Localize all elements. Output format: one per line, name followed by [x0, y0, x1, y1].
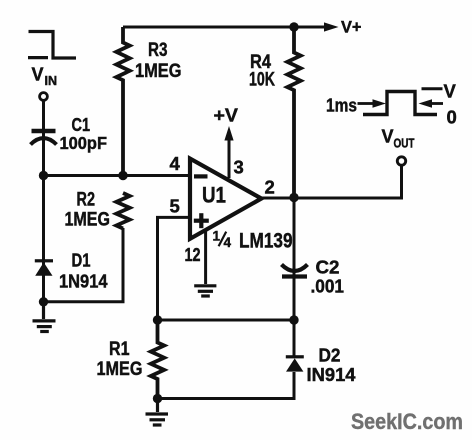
- svg-text:OUT: OUT: [394, 137, 415, 151]
- svg-text:V: V: [32, 65, 44, 85]
- junction dot bottom rail left: [153, 315, 162, 324]
- top supply rail wire: [123, 26, 294, 29]
- svg-text:100pF: 100pF: [60, 133, 108, 153]
- label D1: [59, 250, 108, 292]
- svg-text:1N914: 1N914: [59, 271, 108, 292]
- ground G1 under D1: [33, 302, 56, 332]
- bottom rail wire: [158, 319, 295, 322]
- label R1: [97, 339, 143, 380]
- ground G2 under R1: [146, 399, 169, 426]
- label VIN: [32, 65, 58, 89]
- junction dot V+ rail: [289, 22, 298, 31]
- label 1/4 LM139: [213, 229, 293, 253]
- pin 12 wire: [204, 231, 207, 284]
- svg-text:.001: .001: [311, 276, 345, 297]
- junction dot bottom rail right: [289, 315, 298, 324]
- op-amp minus sign: [194, 174, 208, 178]
- ground G3 under pin 12: [194, 286, 216, 296]
- svg-text:R3: R3: [148, 40, 168, 61]
- label R3: [135, 40, 182, 82]
- wire D1 branch: [42, 176, 45, 303]
- wire D2 top: [293, 320, 296, 356]
- pin 2 output wire: [261, 166, 401, 198]
- output pulse waveform: [363, 92, 437, 115]
- svg-text:2: 2: [265, 177, 275, 198]
- label D2: [307, 345, 357, 386]
- label C1: [60, 114, 108, 153]
- input terminal VIN: [40, 93, 48, 101]
- svg-text:IN: IN: [45, 74, 58, 88]
- svg-text:1ms: 1ms: [326, 95, 357, 116]
- capacitor C2: [282, 265, 308, 277]
- svg-text:1: 1: [213, 229, 221, 244]
- arrow right: [432, 102, 444, 105]
- wire node A to pin 4: [44, 174, 190, 177]
- svg-text:IN914: IN914: [307, 364, 357, 385]
- svg-text:1MEG: 1MEG: [135, 61, 182, 82]
- svg-text:D2: D2: [319, 345, 341, 366]
- label VOUT: [382, 127, 415, 151]
- op-amp plus sign: [194, 213, 209, 228]
- svg-text:1MEG: 1MEG: [97, 359, 143, 380]
- svg-text:10K: 10K: [249, 70, 275, 91]
- node A junction dot: [39, 171, 48, 180]
- resistor R3: [116, 27, 129, 176]
- bottom wire R1 to D2: [158, 372, 295, 399]
- label R2: [65, 190, 111, 231]
- resistor R4: [287, 27, 300, 198]
- diode D2: [286, 355, 304, 371]
- svg-text:C2: C2: [316, 257, 340, 278]
- svg-text:C1: C1: [72, 114, 91, 135]
- wire VIN to node A: [42, 101, 45, 176]
- pin 3 wire and +V arrow: [228, 140, 231, 179]
- junction dot D1 bottom: [39, 297, 48, 306]
- resistor R2: [116, 193, 129, 228]
- svg-text:1MEG: 1MEG: [65, 210, 111, 231]
- svg-text:D1: D1: [72, 250, 91, 271]
- svg-text:U1: U1: [202, 183, 226, 208]
- diode D1: [35, 259, 53, 276]
- svg-text:5: 5: [170, 196, 180, 217]
- V level dash: [422, 87, 443, 90]
- wire output node to C2 and bottom rail: [293, 198, 296, 321]
- 1ms arrow left: [358, 102, 374, 105]
- output terminal VOUT: [397, 157, 405, 165]
- fraction slash of 1/4: [219, 232, 227, 247]
- input pulse waveform: [28, 32, 76, 59]
- junction dot R1 bottom: [153, 394, 162, 403]
- svg-text:LM139: LM139: [239, 230, 293, 253]
- resistor R1: [151, 320, 164, 399]
- svg-text:V: V: [382, 127, 394, 147]
- svg-text:V: V: [444, 81, 457, 102]
- V+ arrow: [294, 26, 325, 29]
- svg-text:+V: +V: [214, 105, 239, 126]
- pin 5 wire: [158, 217, 191, 320]
- svg-text:4: 4: [224, 235, 232, 250]
- label R4: [249, 52, 275, 91]
- junction dot output node: [289, 193, 298, 202]
- svg-text:R2: R2: [77, 190, 96, 211]
- svg-text:12: 12: [185, 244, 201, 265]
- svg-text:4: 4: [170, 153, 181, 174]
- capacitor C1: [31, 131, 57, 145]
- op-amp U1 triangle: [190, 159, 261, 239]
- svg-text:SeekIC.com: SeekIC.com: [351, 409, 463, 434]
- svg-text:R1: R1: [109, 339, 130, 360]
- svg-text:3: 3: [234, 157, 244, 178]
- wire D1 node to R2 bottom: [44, 228, 124, 302]
- label C2: [311, 257, 345, 297]
- svg-text:0: 0: [447, 107, 457, 128]
- svg-text:V+: V+: [341, 19, 362, 37]
- junction dot node A at R2/R3: [118, 171, 127, 180]
